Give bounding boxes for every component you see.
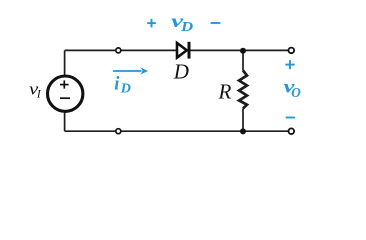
svg-text:D: D (180, 19, 194, 34)
svg-text:O: O (291, 85, 301, 100)
svg-text:I: I (36, 88, 42, 100)
svg-text:R: R (218, 80, 232, 104)
svg-text:D: D (173, 59, 189, 83)
svg-text:D: D (120, 81, 131, 96)
svg-text:i: i (114, 75, 120, 95)
